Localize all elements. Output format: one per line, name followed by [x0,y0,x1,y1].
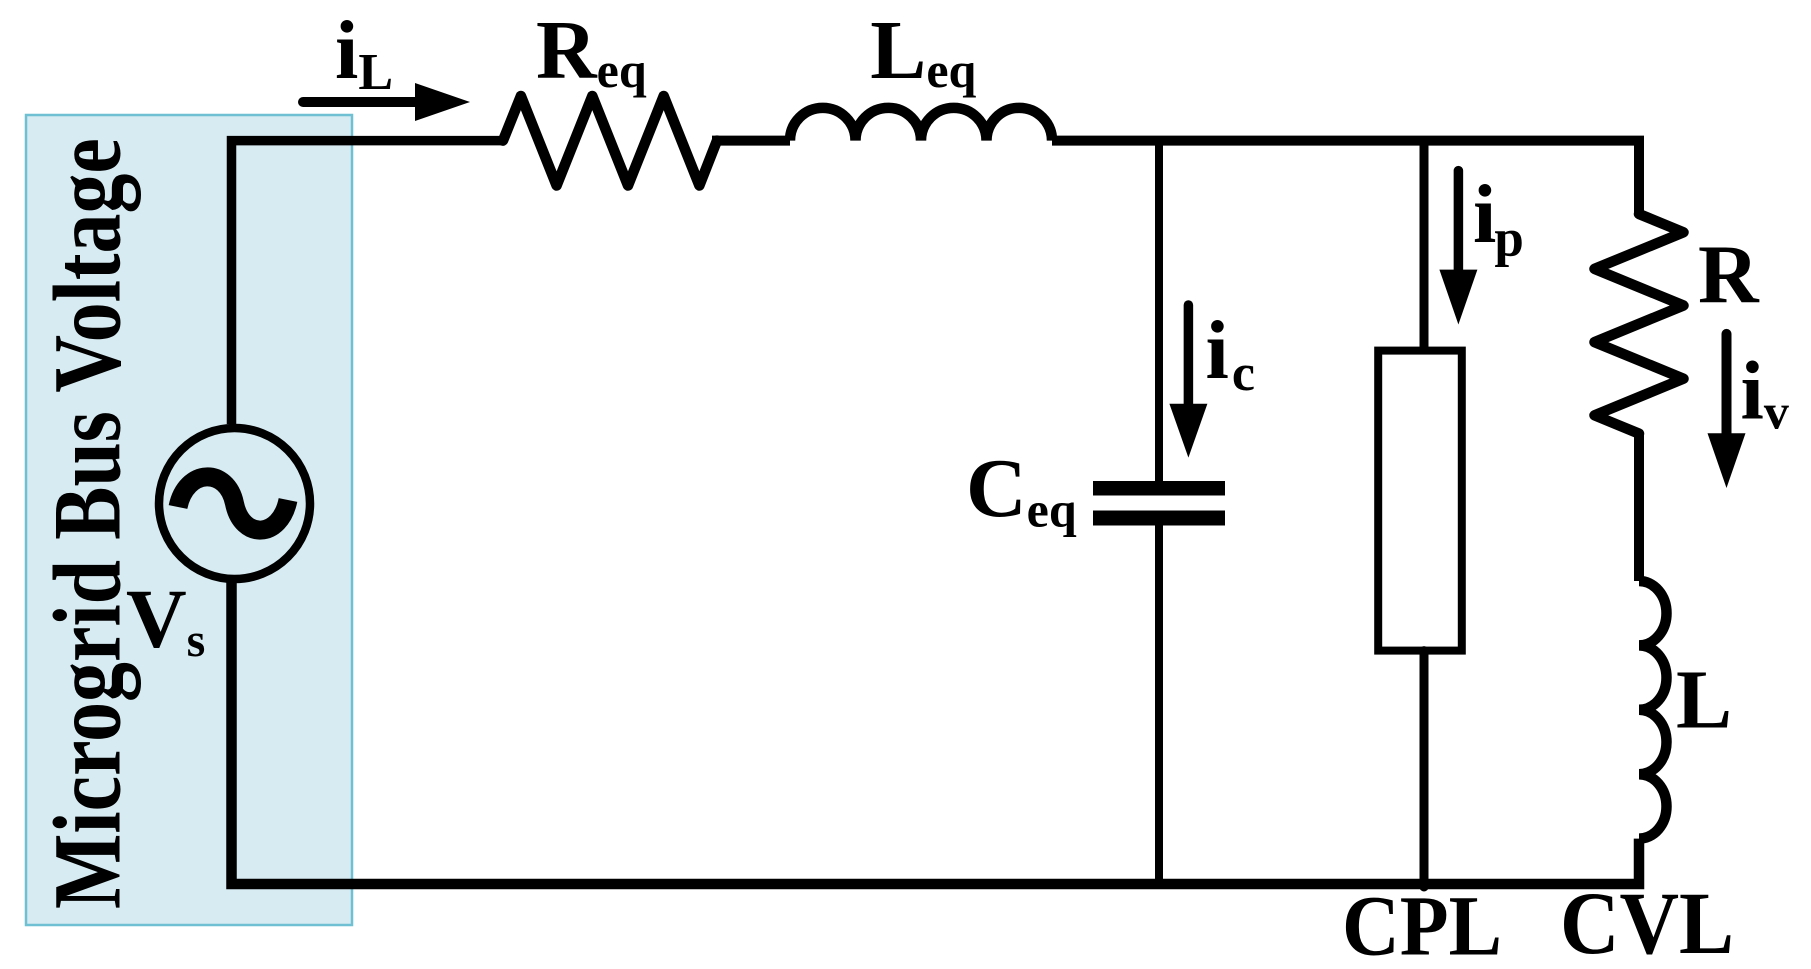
voltage source Vs [159,428,310,579]
current arrow ip [1439,171,1477,325]
current arrow iL [303,83,470,121]
svg-text:Leq: Leq [870,4,976,98]
current arrow iv [1708,334,1746,488]
wire Req to Leq [712,136,790,146]
capacitor Ceq [1093,481,1225,526]
svg-text:Microgrid Bus Voltage: Microgrid Bus Voltage [34,138,141,909]
svg-text:R: R [1698,228,1760,321]
svg-text:iv: iv [1741,344,1789,439]
wire CPL branch lower [1420,651,1429,887]
resistor Req [503,96,717,186]
wire source top to Req [232,141,504,424]
svg-text:CPL: CPL [1342,878,1502,969]
wire CPL branch upper [1420,140,1429,351]
wire capacitor branch upper [1155,140,1163,481]
inductor L [1639,581,1667,839]
svg-text:ip: ip [1473,168,1524,267]
svg-text:CVL: CVL [1560,875,1734,969]
svg-text:ic: ic [1206,304,1255,402]
wire R to L [1634,434,1644,581]
current arrow ic [1169,305,1207,458]
resistor R [1595,214,1684,434]
microgrid bus voltage region [26,115,352,925]
svg-text:Req: Req [536,4,647,98]
svg-text:iL: iL [335,4,393,101]
wire capacitor branch lower [1155,526,1163,885]
wire Leq to top-right corner and down to R [1052,141,1639,214]
svg-text:L: L [1676,654,1732,747]
inductor Leq [790,108,1052,141]
CPL box [1378,351,1462,651]
wire L to bottom, bottom wire, up to source bottom [232,578,1640,884]
svg-text:Ceq: Ceq [966,442,1077,538]
